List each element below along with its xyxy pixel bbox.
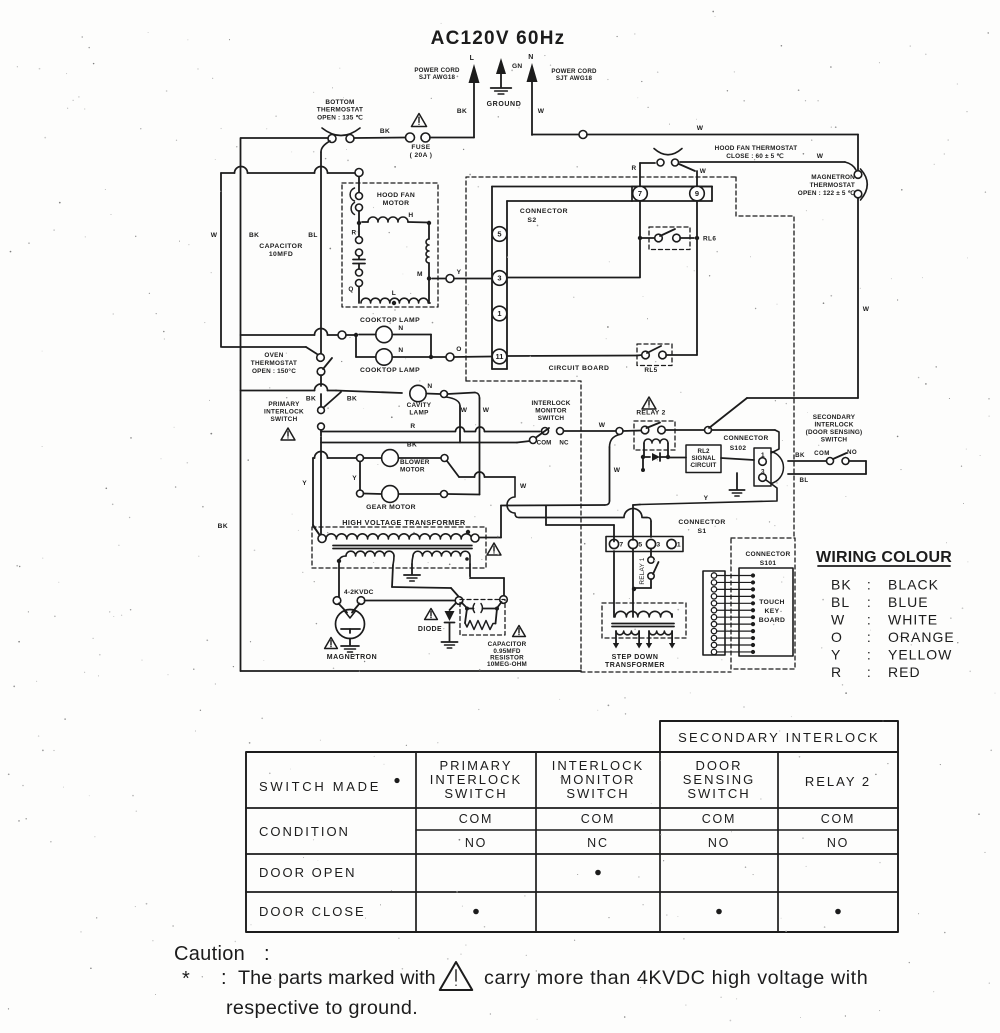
svg-text:(DOOR SENSING): (DOOR SENSING) — [806, 429, 863, 436]
svg-text:ORANGE: ORANGE — [888, 629, 955, 645]
svg-text:TOUCH: TOUCH — [759, 599, 785, 606]
svg-text:KEY: KEY — [765, 608, 780, 615]
svg-text:CIRCUIT: CIRCUIT — [691, 462, 717, 469]
svg-text:BL: BL — [799, 477, 808, 484]
svg-text:LAMP: LAMP — [409, 410, 429, 417]
svg-text:N: N — [528, 54, 533, 61]
svg-text:INTERLOCK: INTERLOCK — [552, 758, 644, 773]
svg-text:W: W — [461, 407, 468, 414]
svg-text:BL: BL — [308, 232, 318, 239]
svg-text:*: * — [182, 968, 190, 990]
svg-text:N: N — [398, 347, 403, 354]
svg-text:S102: S102 — [730, 445, 747, 452]
svg-text:HIGH VOLTAGE TRANSFORMER: HIGH VOLTAGE TRANSFORMER — [342, 518, 466, 527]
svg-text:INTERLOCK: INTERLOCK — [430, 772, 522, 787]
svg-text:BOTTOM: BOTTOM — [325, 99, 354, 106]
svg-text:BOARD: BOARD — [759, 617, 785, 624]
svg-text:BK: BK — [249, 232, 259, 239]
svg-text:DOOR: DOOR — [696, 758, 743, 773]
svg-text:MOTOR: MOTOR — [383, 200, 410, 207]
svg-text:10MFD: 10MFD — [269, 251, 293, 258]
svg-text:Y: Y — [704, 495, 709, 502]
svg-text:NC: NC — [587, 836, 609, 850]
svg-text:W: W — [863, 306, 870, 313]
svg-text:SWITCH: SWITCH — [687, 786, 750, 801]
svg-text:NO: NO — [847, 449, 857, 456]
svg-text:MAGNETRON: MAGNETRON — [327, 654, 377, 661]
svg-text:CONNECTOR: CONNECTOR — [520, 208, 568, 215]
svg-text:R: R — [410, 423, 415, 430]
svg-text:CAPACITOR: CAPACITOR — [259, 243, 302, 250]
svg-text:COM: COM — [814, 450, 830, 457]
svg-text:W: W — [700, 168, 707, 175]
svg-text:S101: S101 — [760, 560, 777, 567]
svg-text:R: R — [351, 230, 356, 237]
svg-text:INTERLOCK: INTERLOCK — [264, 409, 304, 416]
svg-text:SENSING: SENSING — [683, 772, 756, 787]
svg-text:O: O — [831, 629, 843, 645]
svg-text:COM: COM — [581, 812, 616, 826]
svg-text:W: W — [211, 232, 218, 239]
svg-text:MONITOR: MONITOR — [535, 408, 567, 415]
svg-text:CONNECTOR: CONNECTOR — [678, 519, 725, 526]
svg-text::: : — [867, 577, 871, 593]
svg-text:RL5: RL5 — [644, 367, 657, 374]
svg-text:BLACK: BLACK — [888, 577, 939, 593]
svg-text:NO: NO — [827, 836, 849, 850]
svg-text:CONNECTOR: CONNECTOR — [723, 435, 768, 442]
svg-text:GN: GN — [512, 63, 522, 70]
svg-text:W: W — [831, 612, 845, 628]
svg-text:OPEN : 150°C: OPEN : 150°C — [252, 367, 296, 375]
svg-text:NO: NO — [465, 836, 487, 850]
svg-text:11: 11 — [496, 352, 504, 361]
svg-text:W: W — [817, 153, 824, 160]
svg-text:MAGNETRON: MAGNETRON — [811, 174, 855, 181]
svg-text:W: W — [483, 407, 490, 414]
svg-text:RL6: RL6 — [703, 236, 716, 243]
svg-text:SJT AWG18: SJT AWG18 — [556, 75, 593, 82]
svg-text:S2: S2 — [527, 217, 536, 224]
svg-text:BLUE: BLUE — [888, 594, 929, 610]
svg-text:THERMOSTAT: THERMOSTAT — [317, 107, 363, 114]
svg-text::: : — [221, 967, 227, 989]
svg-text:CAPACITOR: CAPACITOR — [488, 641, 527, 648]
svg-text:Y: Y — [831, 647, 841, 663]
svg-text:BK: BK — [380, 128, 390, 135]
svg-text:Q: Q — [348, 286, 353, 293]
svg-text:YELLOW: YELLOW — [888, 647, 952, 663]
svg-text:W: W — [614, 467, 621, 474]
svg-text:MOTOR: MOTOR — [400, 467, 425, 474]
svg-text:9: 9 — [695, 189, 699, 198]
svg-text:RED: RED — [888, 664, 921, 680]
svg-text:Y: Y — [302, 480, 307, 487]
svg-text:RL2: RL2 — [698, 448, 710, 455]
svg-text::: : — [867, 612, 871, 628]
svg-text:The parts marked with: The parts marked with — [238, 967, 436, 989]
svg-text:CIRCUIT BOARD: CIRCUIT BOARD — [549, 365, 610, 372]
svg-text:OVEN: OVEN — [264, 352, 283, 359]
svg-text:DOOR CLOSE: DOOR CLOSE — [259, 904, 366, 919]
svg-text:PRIMARY: PRIMARY — [440, 758, 513, 773]
svg-text:RELAY 1: RELAY 1 — [639, 557, 646, 584]
svg-text:S1: S1 — [697, 528, 706, 535]
svg-text:BK: BK — [218, 523, 228, 530]
svg-text:( 20A ): ( 20A ) — [410, 152, 433, 159]
svg-text:4-2KVDC: 4-2KVDC — [344, 589, 374, 596]
svg-text:COOKTOP LAMP: COOKTOP LAMP — [360, 367, 420, 374]
svg-text:INTERLOCK: INTERLOCK — [814, 422, 853, 429]
svg-text:L: L — [392, 290, 396, 297]
svg-text:THERMOSTAT: THERMOSTAT — [810, 182, 855, 189]
svg-text:7: 7 — [638, 189, 642, 198]
svg-text:SWITCH: SWITCH — [538, 415, 565, 422]
svg-text:AC120V 60Hz: AC120V 60Hz — [431, 28, 566, 49]
svg-text:1: 1 — [497, 309, 501, 318]
svg-text:M: M — [417, 271, 423, 278]
svg-text:Y: Y — [352, 475, 357, 482]
svg-text:R: R — [631, 165, 636, 172]
svg-text:POWER CORD: POWER CORD — [414, 67, 460, 74]
svg-text:COM: COM — [702, 812, 737, 826]
svg-text:Caution: Caution — [174, 943, 245, 965]
svg-text:1: 1 — [677, 542, 681, 549]
svg-text:RELAY 2: RELAY 2 — [636, 410, 665, 417]
svg-text:SIGNAL: SIGNAL — [692, 455, 716, 462]
svg-text:COM: COM — [537, 440, 552, 447]
svg-text:MONITOR: MONITOR — [560, 772, 635, 787]
svg-text:CLOSE : 60 ± 5 ℃: CLOSE : 60 ± 5 ℃ — [726, 153, 784, 160]
svg-text:SWITCH: SWITCH — [566, 786, 629, 801]
svg-text:SWITCH: SWITCH — [821, 437, 848, 444]
svg-text:COM: COM — [821, 812, 856, 826]
svg-text:BK: BK — [831, 577, 852, 593]
svg-text::: : — [867, 629, 871, 645]
svg-text:SECONDARY INTERLOCK: SECONDARY INTERLOCK — [678, 730, 880, 745]
svg-text:INTERLOCK: INTERLOCK — [531, 400, 570, 407]
svg-text:W: W — [697, 125, 704, 132]
svg-text:W: W — [538, 108, 545, 115]
svg-text::: : — [867, 594, 871, 610]
svg-text:N: N — [398, 325, 403, 332]
svg-text:HOOD FAN THERMOSTAT: HOOD FAN THERMOSTAT — [715, 145, 798, 152]
svg-text:SWITCH: SWITCH — [270, 416, 297, 423]
svg-text:BK: BK — [407, 442, 417, 449]
svg-text:N: N — [427, 383, 432, 390]
svg-text:5: 5 — [497, 230, 501, 239]
svg-text:BK: BK — [457, 108, 467, 115]
svg-text:3: 3 — [497, 274, 501, 283]
svg-text:GROUND: GROUND — [487, 101, 522, 108]
svg-text:GEAR MOTOR: GEAR MOTOR — [366, 504, 416, 511]
svg-text:CAVITY: CAVITY — [407, 402, 432, 409]
svg-text:DIODE: DIODE — [418, 626, 442, 633]
svg-text:3: 3 — [656, 542, 660, 549]
svg-text:OPEN : 135 ℃: OPEN : 135 ℃ — [317, 115, 363, 122]
svg-text:SWITCH MADE: SWITCH MADE — [259, 779, 381, 794]
svg-text:HOOD FAN: HOOD FAN — [377, 192, 415, 199]
svg-text::: : — [264, 943, 270, 965]
svg-text:7: 7 — [619, 542, 623, 549]
svg-text:R: R — [831, 664, 842, 680]
svg-text:THERMOSTAT: THERMOSTAT — [251, 360, 297, 367]
svg-text:O: O — [456, 346, 462, 353]
svg-text:W: W — [520, 483, 527, 490]
svg-text:BK: BK — [795, 452, 805, 459]
svg-text:WIRING COLOUR: WIRING COLOUR — [816, 549, 952, 566]
svg-text:BLOWER: BLOWER — [400, 459, 430, 466]
svg-text:H: H — [408, 212, 413, 219]
svg-text:BL: BL — [831, 594, 850, 610]
svg-text:WHITE: WHITE — [888, 612, 938, 628]
svg-text:SWITCH: SWITCH — [444, 786, 507, 801]
svg-text:BK: BK — [347, 396, 357, 403]
svg-text::: : — [867, 647, 871, 663]
svg-text:L: L — [470, 55, 475, 62]
svg-text:TRANSFORMER: TRANSFORMER — [605, 662, 665, 669]
svg-text:SJT AWG18: SJT AWG18 — [419, 74, 456, 81]
svg-text:STEP DOWN: STEP DOWN — [612, 654, 659, 661]
svg-text:CONNECTOR: CONNECTOR — [745, 551, 790, 558]
svg-text:10MEG-OHM: 10MEG-OHM — [487, 661, 527, 668]
svg-text:5: 5 — [638, 542, 642, 549]
svg-text:SECONDARY: SECONDARY — [813, 414, 856, 421]
svg-text:OPEN : 122 ± 5 ℃: OPEN : 122 ± 5 ℃ — [798, 190, 855, 197]
svg-text:FUSE: FUSE — [411, 144, 430, 151]
svg-text:Y: Y — [457, 269, 462, 276]
svg-text:NC: NC — [559, 440, 569, 447]
svg-text:DOOR OPEN: DOOR OPEN — [259, 865, 356, 880]
svg-text:NO: NO — [708, 836, 730, 850]
svg-text:respective to ground.: respective to ground. — [226, 997, 418, 1019]
svg-text:RELAY 2: RELAY 2 — [805, 774, 871, 789]
svg-text:BK: BK — [306, 396, 316, 403]
svg-text:COM: COM — [459, 812, 494, 826]
svg-text::: : — [867, 664, 871, 680]
svg-text:PRIMARY: PRIMARY — [268, 401, 300, 408]
svg-text:CONDITION: CONDITION — [259, 824, 350, 839]
svg-text:carry more than 4KVDC high vol: carry more than 4KVDC high voltage with — [484, 967, 868, 989]
svg-text:W: W — [599, 422, 606, 429]
svg-text:POWER CORD: POWER CORD — [551, 68, 597, 75]
